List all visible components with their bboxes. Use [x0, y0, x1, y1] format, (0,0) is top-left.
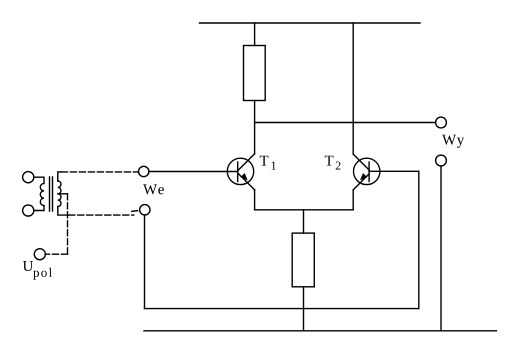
wire top resistor lower lead to T1 collector — [254, 101, 256, 154]
wire top resistor upper lead — [254, 23, 256, 46]
wire T2 base to right vertical — [369, 170, 419, 172]
label T2 subscript 2 — [336, 162, 341, 170]
node Wy terminal circle — [436, 117, 447, 128]
transistor T1 emitter diagonal — [238, 173, 255, 190]
resistor R1 (top load resistor) — [244, 46, 266, 101]
node lower input terminal circle — [140, 205, 150, 215]
wire right vertical feedback — [418, 171, 420, 308]
wire dashed horizontal to Upol terminal — [45, 253, 67, 255]
transistor T2 emitter arrow — [361, 174, 367, 180]
wire bottom rail — [144, 330, 496, 332]
wire dashed secondary bottom to lower terminal — [69, 214, 134, 216]
wire bottom resistor lower lead — [303, 287, 305, 331]
wire T1 emitter vertical — [254, 190, 256, 210]
wire secondary bottom lead — [58, 207, 69, 216]
transistor T2 collector diagonal — [353, 154, 369, 170]
node transformer primary terminal A — [23, 172, 34, 183]
wire dashed tap vertical to Upol — [67, 194, 69, 254]
wire output line to Wy terminal — [255, 122, 436, 124]
node transformer primary terminal B — [23, 205, 34, 216]
transformer TR1 secondary winding — [58, 181, 61, 207]
wire terminal A to primary — [34, 177, 44, 183]
transistor T2 base bar — [368, 162, 370, 181]
node We input terminal circle — [139, 166, 149, 176]
wire We terminal to T1 base — [149, 171, 238, 173]
wire tail junction down to bottom resistor — [303, 210, 305, 233]
transistor Q2 (T2) circle — [354, 158, 380, 184]
wire T2 collector vertical from top rail — [352, 23, 354, 154]
wire secondary top lead — [58, 172, 62, 181]
transistor T1 collector diagonal — [238, 154, 255, 171]
label T1 — [260, 156, 269, 166]
wire common emitter horizontal — [255, 209, 354, 211]
transistor Q1 (T1) circle — [227, 158, 253, 184]
label Upol U — [23, 261, 33, 271]
transformer TR1 primary winding — [40, 183, 44, 205]
label T2 — [325, 156, 334, 166]
transistor T2 emitter diagonal — [353, 174, 369, 190]
transistor T1 emitter arrow — [241, 174, 247, 180]
wire dashed secondary top to We — [61, 171, 138, 173]
node output terminal 2 — [436, 155, 447, 166]
wire lower terminal down to feedback line — [144, 215, 146, 309]
transformer TR1 core lines — [49, 177, 51, 211]
resistor R2 (tail resistor) — [292, 233, 314, 287]
wire lower horizontal feedback — [145, 308, 419, 310]
wire T2 emitter vertical — [352, 190, 354, 210]
label Wy — [442, 135, 464, 148]
label We — [143, 184, 164, 194]
transistor T1 base bar — [237, 162, 239, 181]
label T1 subscript 1 — [272, 162, 276, 170]
wire from output terminal 2 down to bottom rail — [440, 166, 442, 331]
wire primary to terminal B — [34, 206, 44, 211]
node Upol terminal circle — [34, 249, 45, 260]
label Upol subscript pol — [33, 268, 52, 280]
wire secondary center tap — [58, 193, 68, 195]
wire dash rising to lower terminal — [132, 210, 138, 213]
wire top supply rail — [200, 22, 421, 24]
